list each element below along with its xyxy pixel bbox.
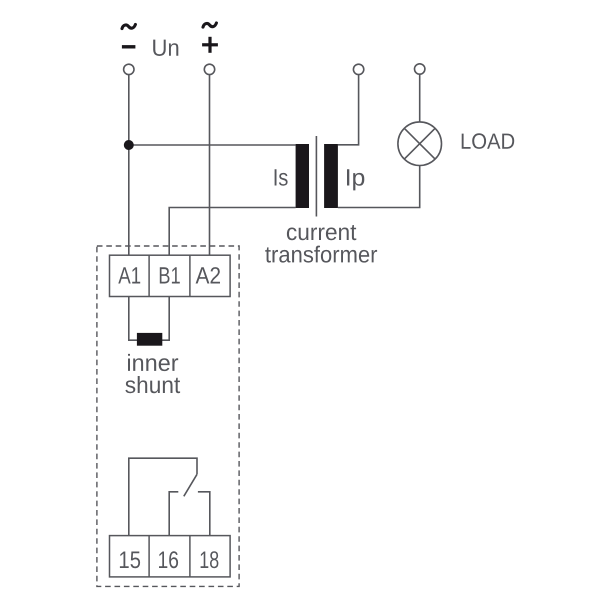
wire Ip winding bottom to lamp [338, 166, 420, 208]
label Ip (primary winding) [347, 169, 364, 190]
terminal circle Un- [124, 64, 134, 74]
wire Un- terminal down to A1 [128, 75, 130, 256]
AC tilde symbol right [203, 23, 216, 27]
label inner shunt line2 [125, 376, 180, 393]
terminal circle Un+ [204, 64, 214, 74]
wire Un+ terminal down to A2 [209, 75, 211, 256]
junction node dot [124, 140, 134, 150]
dashed device outline box [97, 246, 239, 586]
label Un [153, 40, 178, 56]
lamp LOAD symbol [398, 122, 442, 166]
transformer primary winding bar Ip [324, 144, 338, 208]
pin label A1 [118, 267, 140, 283]
transformer secondary winding bar Is [296, 144, 309, 208]
minus polarity symbol [122, 45, 135, 48]
pin label 15 [120, 552, 140, 569]
inner shunt resistor body [137, 333, 162, 346]
terminal circle load supply [415, 64, 425, 74]
AC tilde symbol left [122, 25, 135, 29]
pin label B1 [160, 267, 180, 283]
transformer core line [315, 136, 317, 217]
wire terminal 16 to NC contact [169, 492, 178, 536]
terminal block A1 B1 A2 [110, 255, 231, 296]
relay contact moving arm [184, 474, 197, 496]
pin label 18 [201, 551, 219, 568]
wire terminal 15 to relay common [129, 458, 197, 535]
label inner shunt line1 [128, 354, 178, 371]
wire node to Is winding top [129, 144, 296, 146]
wire Is winding bottom to B1 [169, 208, 295, 256]
wire terminal 18 to NO contact [198, 492, 210, 536]
wire lamp top to load terminal [419, 74, 421, 122]
pin label A2 [196, 267, 220, 283]
terminal circle Ip supply [353, 64, 363, 74]
pin label 16 [159, 551, 178, 568]
wire A1 and B1 to inner shunt [129, 296, 169, 340]
label Is (secondary winding) [275, 169, 288, 185]
label current transformer line2 [265, 246, 377, 263]
label current transformer line1 [287, 225, 356, 240]
plus polarity symbol [202, 37, 218, 53]
wire Ip winding top to supply terminal [338, 75, 359, 145]
terminal block 15 16 18 [110, 536, 231, 577]
label LOAD [462, 133, 515, 149]
